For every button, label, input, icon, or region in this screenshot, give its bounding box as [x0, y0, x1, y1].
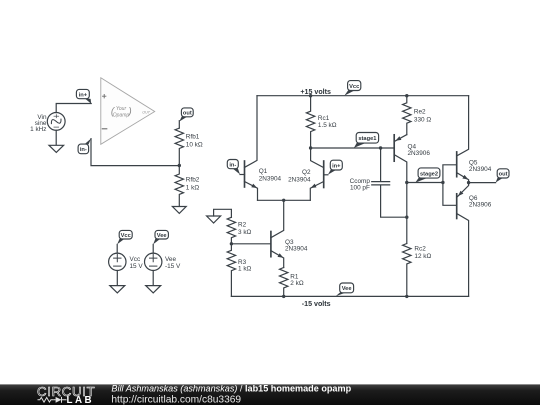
resistor Rfb2 — [175, 166, 183, 207]
transistor Q2 — [310, 148, 323, 200]
node Re2 top on +15 rail — [405, 94, 408, 97]
voltage source Vcc supply — [109, 244, 126, 293]
svg-text:2N3904: 2N3904 — [469, 166, 492, 173]
wire stage2 — [407, 182, 443, 184]
svg-text:12 kΩ: 12 kΩ — [414, 253, 431, 260]
transistor Q4 — [394, 135, 407, 183]
node stage2 at Q5/Q6 base — [441, 181, 444, 184]
transistor Q5 — [457, 96, 469, 183]
svg-text:stage2: stage2 — [420, 171, 438, 177]
flag stage1 — [354, 133, 379, 148]
svg-text:OUT: OUT — [142, 110, 150, 114]
flag out (feedback) — [179, 108, 193, 122]
logo squiggle resistor and diode — [38, 397, 67, 403]
svg-text:100 pF: 100 pF — [350, 184, 370, 191]
svg-text:in-: in- — [80, 147, 87, 153]
ground tail bias — [207, 216, 221, 223]
wire Q1 base — [240, 174, 245, 176]
svg-text:-15 V: -15 V — [165, 263, 181, 270]
wire Q2 base — [324, 174, 328, 176]
node R2/R3/Q3 base — [230, 242, 233, 245]
node Rfb1/Rfb2/in- — [178, 164, 181, 167]
flag out (emitters) — [496, 169, 509, 183]
wire Q3 base — [231, 243, 271, 245]
ground below Rfb2 — [172, 207, 186, 214]
svg-text:3 kΩ: 3 kΩ — [238, 229, 252, 236]
svg-text:10 kΩ: 10 kΩ — [186, 142, 203, 149]
svg-text:-15 volts: -15 volts — [302, 300, 331, 308]
svg-text:Vee: Vee — [157, 233, 167, 239]
svg-text:Bill Ashmanskas (ashmanskas) /: Bill Ashmanskas (ashmanskas) / lab15 hom… — [111, 384, 351, 394]
wire stage1 — [311, 147, 395, 149]
svg-text:2N3904: 2N3904 — [259, 175, 282, 182]
svg-text:in+: in+ — [332, 163, 341, 169]
svg-text:Vcc: Vcc — [121, 233, 131, 239]
capacitor Ccomp — [372, 182, 390, 185]
svg-text:1 kHz: 1 kHz — [30, 126, 46, 133]
svg-text:2N3906: 2N3906 — [469, 202, 492, 209]
svg-text:1 kΩ: 1 kΩ — [186, 185, 200, 192]
svg-text:Vcc: Vcc — [349, 84, 359, 90]
ground below Vin — [49, 145, 64, 152]
svg-text:330 Ω: 330 Ω — [414, 116, 431, 123]
svg-text:Rc2: Rc2 — [414, 246, 426, 253]
svg-text:http://circuitlab.com/c8u3369: http://circuitlab.com/c8u3369 — [111, 394, 241, 405]
wire Vin top to in+ flag — [56, 104, 91, 113]
svg-text:+15 volts: +15 volts — [300, 88, 331, 96]
svg-text:in+: in+ — [79, 92, 88, 98]
node Rc2 bottom on -15 rail — [405, 295, 408, 298]
node Rc1 top on +15 rail — [309, 94, 312, 97]
resistor Rfb1 — [175, 128, 183, 165]
svg-text:Re2: Re2 — [414, 108, 426, 115]
node R1 bottom on -15 rail — [282, 295, 285, 298]
wire ground to R2 — [214, 209, 232, 217]
wire Q4 collector to Rc2 — [406, 183, 408, 244]
transistor Q6 — [457, 183, 469, 297]
svg-text:Opamp: Opamp — [113, 113, 130, 119]
wire bottom -15V rail — [231, 295, 468, 297]
flag Vee (bottom rail) — [336, 283, 354, 296]
svg-text:LAB: LAB — [67, 395, 95, 405]
flag Vee (supply) — [153, 230, 168, 244]
transistor Q1 — [245, 161, 258, 200]
footer bar — [0, 384, 540, 405]
flag in- (op-amp) — [78, 139, 91, 154]
svg-text:Q1: Q1 — [259, 168, 268, 175]
component value labels — [30, 88, 492, 308]
svg-text:in-: in- — [229, 162, 236, 168]
wire common emitters — [258, 199, 311, 201]
svg-text:Q2: Q2 — [302, 169, 311, 176]
node stage1 at Rc1/Q2 collector — [309, 146, 312, 149]
svg-text:Your: Your — [116, 106, 127, 112]
node stage2 at Q4 collector — [405, 181, 408, 184]
op-amp U1 inner handwritten label — [111, 106, 151, 119]
resistor R3 — [227, 244, 235, 297]
transistor Q3 — [271, 200, 284, 267]
svg-text:15 V: 15 V — [130, 263, 144, 270]
node Ccomp/Rc2 junction — [405, 216, 408, 219]
svg-text:2N3904: 2N3904 — [285, 246, 308, 253]
resistor Rc2 — [403, 244, 411, 297]
svg-text:2 kΩ: 2 kΩ — [290, 280, 304, 287]
svg-text:1 kΩ: 1 kΩ — [238, 265, 252, 272]
wire in- net to Rfb junction — [91, 139, 179, 166]
flag in+ (Vin) — [76, 89, 91, 103]
svg-text:2N3906: 2N3906 — [408, 150, 431, 157]
svg-text:out: out — [183, 111, 192, 117]
wire Q1 collector drop — [245, 96, 258, 168]
node out at emitters — [467, 181, 470, 184]
resistor Re2 — [403, 96, 411, 135]
wire out — [469, 182, 496, 184]
svg-text:out: out — [499, 172, 508, 178]
flag Vcc (supply) — [117, 230, 132, 244]
svg-text:): ) — [127, 107, 131, 118]
node common emitters / Q3 collector — [282, 199, 285, 202]
wire Vin bottom to ground — [55, 130, 57, 145]
svg-text:Rfb2: Rfb2 — [186, 176, 200, 183]
svg-text:stage1: stage1 — [358, 136, 376, 142]
svg-text:1.5 kΩ: 1.5 kΩ — [318, 122, 337, 129]
net flags — [76, 81, 509, 297]
node Ccomp tap on stage1 — [379, 146, 382, 149]
svg-text:Rfb1: Rfb1 — [186, 134, 200, 141]
wire top +15V rail — [257, 95, 469, 97]
flag Vcc (top rail) — [344, 81, 360, 96]
resistor R2 — [227, 217, 235, 244]
wire out flag to Rfb1 — [178, 121, 180, 128]
wire Ccomp bottom lead — [381, 185, 407, 217]
wire Ccomp top lead — [380, 148, 382, 181]
resistor Rc1 — [306, 96, 314, 148]
svg-text:R2: R2 — [238, 222, 247, 229]
svg-text:2N3904: 2N3904 — [288, 176, 311, 183]
flag in+ (Q2 base) — [328, 160, 343, 175]
voltage source Vin — [47, 113, 65, 131]
resistor R1 — [280, 268, 288, 297]
op-amp U1 sketch triangle — [101, 78, 155, 145]
svg-text:Vee: Vee — [342, 286, 352, 292]
wire Q5 Q6 base bus — [443, 165, 457, 206]
flag in- (Q1 base) — [227, 160, 240, 175]
voltage source Vee supply — [145, 244, 162, 293]
flag stage2 — [415, 168, 440, 183]
